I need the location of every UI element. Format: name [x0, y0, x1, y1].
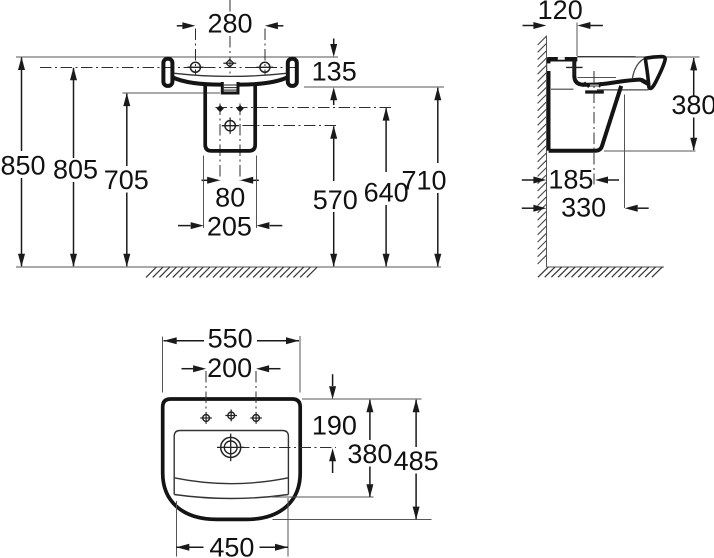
ground hatch side view [538, 267, 662, 277]
pedestal fixing hole diamonds [217, 105, 224, 112]
pedestal drain hole mark [225, 121, 235, 131]
wire 485 bottom reference line plan [273, 519, 432, 521]
semi-pedestal outline [205, 85, 255, 151]
svg-text:705: 705 [104, 165, 149, 195]
svg-text:330: 330 [561, 192, 606, 222]
right faucet hole mark front [260, 62, 270, 72]
node faucet axis line 805 level [40, 66, 299, 68]
dimension 805 [73, 68, 75, 158]
washbasin side underside at wall thin line [551, 88, 574, 90]
dimension 850 [21, 58, 23, 151]
washbasin side bowl back curve thin [632, 59, 644, 79]
svg-text:200: 200 [207, 353, 252, 383]
washbasin underside right [240, 78, 288, 85]
dimension 710 [437, 88, 439, 163]
washbasin plan outer outline [163, 399, 301, 519]
wire 330 extension vertical line [624, 94, 626, 208]
wall hatch [538, 36, 547, 264]
svg-text:135: 135 [312, 56, 357, 86]
drain fitting side view [584, 82, 601, 87]
dimension 120 [523, 25, 534, 27]
dimension 200 [182, 368, 194, 370]
washbasin front view right rim [288, 59, 297, 86]
dimension 135 [333, 39, 335, 45]
svg-text:850: 850 [0, 151, 45, 181]
svg-text:485: 485 [394, 446, 439, 476]
wire 705 reference line [122, 92, 220, 94]
svg-text:205: 205 [207, 212, 252, 242]
dimension 450 extension lines [175, 501, 177, 557]
node left faucet vertical axis [194, 29, 196, 76]
svg-text:805: 805 [53, 155, 98, 185]
washbasin side interior bottom thin line [578, 76, 617, 78]
washbasin side view back edge on wall [547, 58, 551, 151]
wire top reference line 850 level [16, 56, 338, 58]
wire 380 bottom reference line side [604, 150, 696, 152]
dimension 380 plan [369, 400, 371, 440]
node centre axis plan [230, 410, 232, 425]
node left faucet axis plan [205, 371, 207, 425]
dimension 550 [164, 340, 205, 342]
dimension 190 [332, 374, 334, 386]
dimension 280 [177, 25, 183, 27]
dimension 380 side [693, 58, 695, 96]
dimension 330 [522, 207, 534, 209]
dimension 550 extension lines [162, 337, 164, 393]
node drain axis 570 level [222, 125, 339, 127]
floor line side view [547, 266, 665, 268]
dimension 80 [202, 179, 208, 181]
svg-text:570: 570 [313, 185, 358, 215]
wire 190/380/485 top reference line plan [302, 398, 422, 400]
svg-text:190: 190 [312, 410, 357, 440]
drain hole plan [221, 437, 241, 457]
washbasin plan front ledge arc 1 [174, 478, 288, 484]
node drain vertical axis side view [593, 71, 595, 185]
faucet hole cross side view [566, 66, 583, 68]
washbasin plan front ledge arc 2 [174, 495, 288, 499]
washbasin side bowl back wall and elbow [574, 61, 583, 85]
washbasin side top surface thin line [577, 56, 646, 58]
node fixing hole vertical axes 80 dim [219, 104, 221, 181]
svg-text:120: 120 [538, 0, 583, 25]
svg-text:550: 550 [208, 324, 253, 354]
dimension 485 [415, 400, 417, 447]
wire 120 extension line right [576, 23, 578, 57]
washbasin side bowl bottom [583, 80, 640, 85]
svg-text:185: 185 [548, 164, 593, 194]
siphon cover sloped front side view [549, 86, 622, 151]
dimension 450 [176, 546, 203, 548]
svg-text:380: 380 [347, 439, 392, 469]
dimension 205 [178, 225, 191, 227]
node centre vertical axis top [229, 0, 231, 14]
wire 380 top reference line side [666, 56, 699, 58]
svg-text:380: 380 [671, 90, 714, 120]
svg-text:280: 280 [207, 9, 252, 39]
node right faucet vertical axis [264, 29, 266, 76]
dimension 705 [126, 94, 128, 166]
node fixing holes axis 640 level [216, 107, 392, 109]
dimension 570 [333, 126, 335, 181]
wire floor line front view [16, 266, 441, 268]
washbasin side view back top bar [548, 57, 578, 62]
node right faucet axis plan [255, 371, 257, 425]
centre faucet hole mark front [226, 59, 234, 67]
washbasin underside left [173, 78, 221, 85]
dimension 205 extension lines [203, 156, 205, 229]
svg-text:450: 450 [209, 532, 254, 558]
washbasin side underside right thin line [597, 89, 649, 91]
wall line side view [546, 35, 548, 266]
dimension 185 [522, 179, 534, 181]
left faucet hole mark front [190, 62, 200, 72]
washbasin side front rim teardrop [645, 57, 665, 89]
washbasin side bowl front junction [642, 80, 648, 84]
drain trap hatched box front view [221, 82, 224, 93]
washbasin plan inner outline [174, 431, 288, 495]
ground hatch front view [146, 267, 317, 277]
svg-text:80: 80 [215, 183, 245, 213]
left faucet hole mark plan [203, 415, 210, 422]
node drain horizontal axis plan [218, 446, 337, 448]
svg-text:710: 710 [401, 166, 446, 196]
right faucet hole mark plan [253, 415, 260, 422]
fixing bracket slot details [547, 63, 551, 71]
washbasin front view left rim [163, 59, 172, 86]
centre faucet hole mark plan [228, 412, 235, 419]
washbasin front bowl inner edge [175, 73, 287, 76]
dimension 640 [385, 108, 387, 172]
wire 710/135 reference line [304, 86, 444, 88]
wire 380 bottom reference line plan [272, 496, 374, 498]
